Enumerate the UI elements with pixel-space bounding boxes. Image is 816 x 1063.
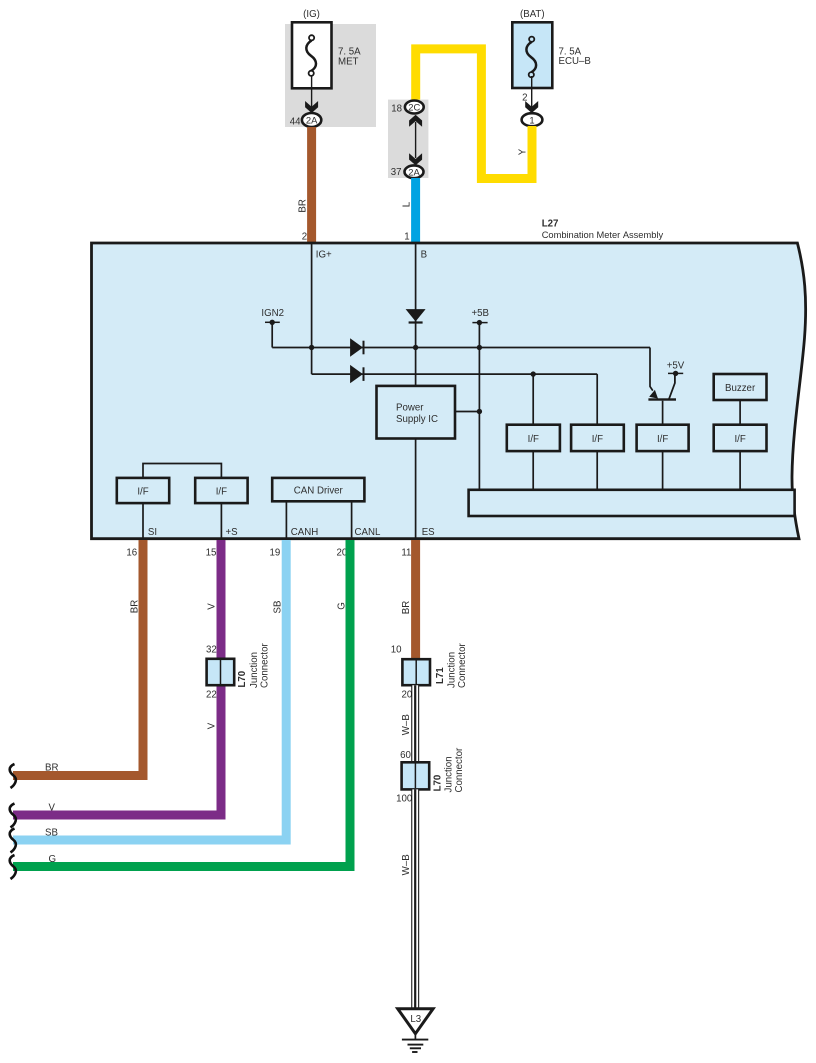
wire I/F3 to bus [662, 451, 664, 490]
wire L (blue) from 2A(37) down to B pin 1 [411, 178, 420, 243]
svg-text:(IG): (IG) [303, 9, 320, 20]
wire fuse BAT to connector 1 [531, 76, 533, 110]
wire BR from 2A(44) down to IG+ pin 2 [307, 127, 316, 243]
svg-text:L27: L27 [542, 218, 559, 229]
Power Supply IC box [377, 386, 456, 439]
svg-text:16: 16 [126, 547, 137, 558]
svg-text:ECU–B: ECU–B [559, 56, 591, 67]
node +5B [471, 308, 489, 325]
wire W-B from L70 to ground [411, 789, 419, 1009]
arrow down into 1 [525, 101, 538, 113]
connector oval 2A (pin 44) [302, 113, 321, 127]
svg-text:G: G [337, 602, 348, 610]
diode D2 on row1 (pointing right) [350, 338, 364, 356]
I/F box B (+S) [195, 478, 247, 503]
svg-text:W–B: W–B [401, 854, 412, 875]
svg-text:2C: 2C [408, 102, 420, 113]
label Junction Connector rotated (second L70) [443, 747, 465, 792]
bus bar [469, 490, 795, 516]
wire IG+ internal vertical [311, 244, 313, 374]
wire I/F4 to bus [739, 451, 741, 490]
svg-text:22: 22 [206, 689, 217, 700]
squiggle SB [10, 829, 16, 853]
fuse block shade (IG) [285, 24, 376, 127]
junction connector L70 (60/100) [402, 762, 430, 789]
Buzzer box [714, 374, 767, 400]
junction dot +5B x PowerIC stub [477, 409, 482, 414]
svg-text:L3: L3 [410, 1014, 421, 1025]
wire ES internal vertical [415, 439, 417, 541]
I/F box 4 [714, 425, 767, 451]
svg-text:SI: SI [148, 527, 157, 538]
svg-text:V: V [207, 603, 218, 610]
svg-text:MET: MET [338, 57, 359, 68]
svg-text:Connector: Connector [260, 643, 271, 688]
svg-text:I/F: I/F [734, 434, 745, 445]
svg-text:1: 1 [404, 232, 409, 243]
svg-text:Junction: Junction [443, 756, 454, 792]
svg-text:+5B: +5B [471, 308, 489, 319]
L27 Combination Meter Assembly box [92, 243, 806, 539]
svg-text:CAN Driver: CAN Driver [294, 486, 344, 497]
svg-text:+S: +S [226, 527, 239, 538]
wire between arrows [415, 122, 417, 158]
label Junction Connector rotated (L71) [447, 643, 469, 688]
svg-text:Y: Y [518, 148, 529, 155]
wire row1 to transistor [650, 348, 653, 391]
connector oval 1 [522, 113, 543, 126]
junction connector L71 [402, 659, 430, 685]
svg-text:Combination Meter Assembly: Combination Meter Assembly [542, 230, 664, 240]
svg-text:11: 11 [401, 547, 411, 558]
svg-text:Supply IC: Supply IC [396, 414, 438, 425]
squiggle BR [10, 764, 16, 788]
connector oval 2A (pin 37) [405, 165, 424, 178]
wire CANH internal [285, 501, 287, 540]
arrow up into 2C [409, 115, 422, 127]
fuse IG 7.5A MET [292, 22, 332, 88]
wire CANL internal [351, 501, 353, 540]
junction dot B x row1 [413, 345, 418, 350]
ground L3 [398, 1009, 433, 1052]
arrow down into 2A [305, 101, 318, 113]
svg-text:2: 2 [522, 93, 527, 104]
wire BR from pin11 to L71 [411, 540, 420, 659]
wire buzzer to I/F4 [739, 400, 741, 425]
svg-text:2A: 2A [306, 115, 318, 126]
svg-text:ES: ES [422, 527, 435, 538]
svg-text:44: 44 [290, 116, 301, 127]
svg-text:BR: BR [298, 199, 309, 212]
diode D3 on row2 (pointing right) [350, 365, 364, 383]
svg-text:Junction: Junction [249, 652, 260, 688]
svg-text:18: 18 [391, 103, 402, 114]
svg-text:+5V: +5V [667, 361, 685, 372]
svg-text:37: 37 [391, 167, 402, 178]
svg-text:V: V [49, 803, 56, 814]
squiggle V [10, 804, 16, 828]
svg-text:I/F: I/F [137, 487, 148, 498]
svg-text:IGN2: IGN2 [261, 308, 284, 319]
I/F box A (SI) [117, 478, 169, 503]
svg-text:Connector: Connector [454, 747, 465, 792]
svg-text:60: 60 [400, 750, 411, 761]
node IGN2 [261, 308, 284, 348]
svg-text:(BAT): (BAT) [520, 9, 545, 20]
wire I/F2 to bus [596, 451, 598, 490]
svg-text:W–B: W–B [401, 714, 412, 735]
svg-text:CANL: CANL [355, 527, 381, 538]
svg-text:BR: BR [129, 600, 140, 613]
connector oval 2C (pin 18) [405, 101, 424, 114]
wire bridge I/F A - I/F B [143, 464, 221, 478]
svg-text:2: 2 [302, 232, 307, 243]
svg-text:1: 1 [529, 114, 534, 125]
svg-text:L70: L70 [237, 671, 248, 688]
I/F box 1 [507, 425, 560, 451]
wire fuse IG to connector 2A [311, 76, 313, 110]
wire row2 drop to I/F1 [532, 374, 534, 425]
wire SI internal [142, 503, 144, 540]
wire row2 drop to I/F2 [596, 374, 598, 425]
svg-text:32: 32 [206, 645, 217, 656]
svg-text:Power: Power [396, 403, 424, 414]
wire Y (yellow) from connector 1 to connector 2C [416, 49, 532, 179]
svg-text:I/F: I/F [528, 434, 539, 445]
svg-text:V: V [207, 722, 218, 729]
svg-text:19: 19 [270, 547, 281, 558]
svg-text:Junction: Junction [447, 652, 458, 688]
svg-text:L70: L70 [433, 775, 444, 792]
svg-text:BR: BR [401, 601, 412, 614]
wire G from pin20 to left edge [13, 540, 350, 867]
svg-text:15: 15 [206, 547, 217, 558]
I/F box 3 [637, 425, 689, 451]
label Junction Connector rotated [249, 643, 271, 688]
svg-text:100: 100 [396, 793, 413, 804]
wire W-B from L71 to L70 [411, 685, 419, 762]
wire +5B vertical [478, 323, 480, 490]
node +5V [667, 361, 685, 376]
wire +S internal [220, 503, 222, 540]
svg-text:Connector: Connector [457, 643, 468, 688]
svg-text:B: B [421, 250, 427, 261]
junction connector L70 (32/22) [207, 659, 235, 685]
svg-text:SB: SB [273, 601, 284, 614]
svg-text:SB: SB [45, 828, 58, 839]
svg-text:L: L [402, 201, 413, 207]
connector shade 2C/2A [388, 100, 428, 178]
svg-text:Buzzer: Buzzer [725, 383, 756, 394]
CAN Driver box [272, 478, 364, 501]
arrow down into 2A [409, 153, 422, 165]
transistor Q1 [648, 376, 676, 425]
wire PowerIC right stub [455, 411, 479, 413]
wire row1 horizontal [272, 347, 650, 349]
svg-text:BR: BR [45, 763, 58, 774]
junction dot IG+ x row1 [309, 345, 314, 350]
svg-text:I/F: I/F [657, 434, 668, 445]
svg-text:G: G [49, 854, 57, 865]
wire BR from pin16 to left edge [13, 540, 143, 776]
wire row2 horizontal [312, 373, 598, 375]
fuse block (BAT) [512, 22, 552, 88]
wire I/F1 to bus [532, 451, 534, 490]
svg-text:IG+: IG+ [316, 250, 332, 261]
I/F box 2 [571, 425, 624, 451]
svg-text:I/F: I/F [592, 434, 603, 445]
diode D1 on B line (pointing down) [406, 309, 426, 324]
wire V from pin15 to left edge [13, 540, 221, 815]
svg-text:2A: 2A [408, 167, 420, 178]
wire B internal vertical [415, 244, 417, 386]
squiggle G [10, 855, 16, 879]
wire SB from pin19 to left edge [13, 540, 286, 840]
svg-text:10: 10 [391, 645, 402, 656]
junction dot +5B x row1 [477, 345, 482, 350]
svg-text:I/F: I/F [216, 487, 227, 498]
svg-text:20: 20 [402, 689, 413, 700]
junction dot row2 drop to I/F1 [531, 371, 536, 376]
svg-text:L71: L71 [435, 667, 446, 684]
svg-text:CANH: CANH [291, 527, 318, 538]
